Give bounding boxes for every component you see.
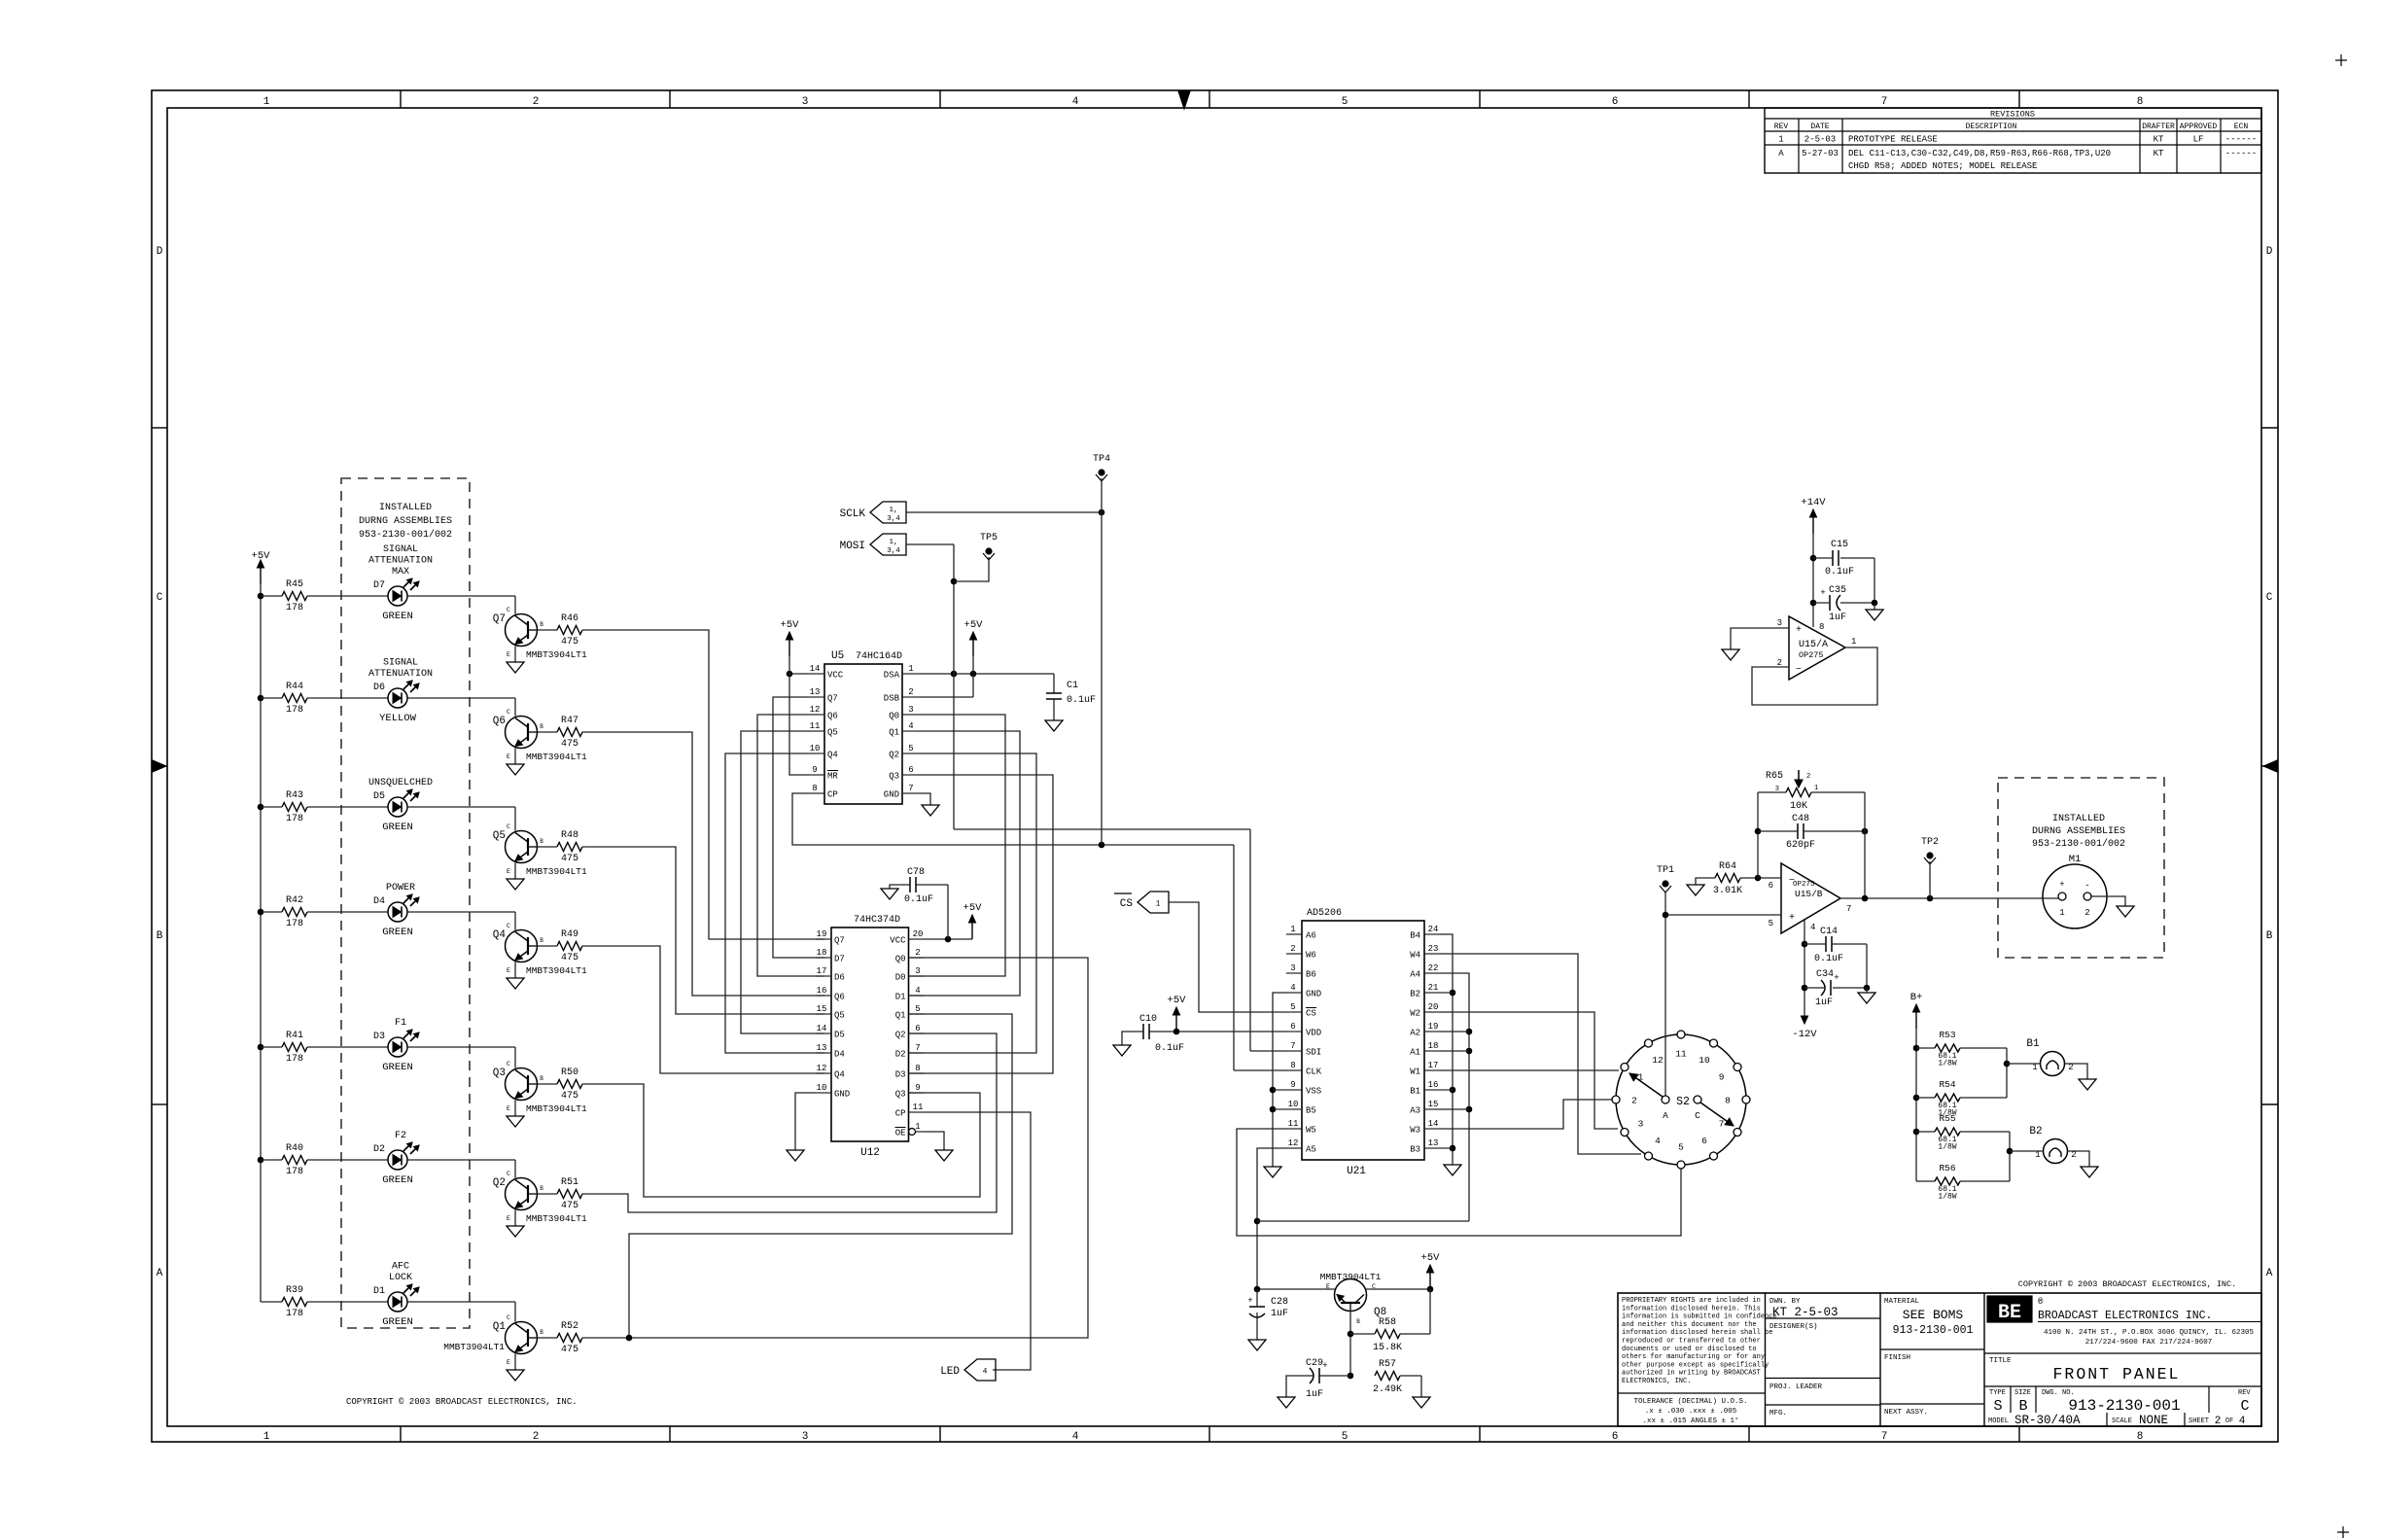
svg-text:Q5: Q5 bbox=[827, 728, 838, 738]
svg-text:KT: KT bbox=[2154, 149, 2164, 158]
svg-text:1,: 1, bbox=[889, 539, 897, 546]
svg-text:7: 7 bbox=[1881, 1431, 1888, 1443]
svg-text:information disclosed herein s: information disclosed herein shall be bbox=[1622, 1329, 1772, 1337]
svg-text:VDD: VDD bbox=[1306, 1029, 1321, 1038]
svg-text:B: B bbox=[157, 930, 163, 942]
svg-text:1: 1 bbox=[908, 664, 913, 674]
svg-text:-: - bbox=[2084, 881, 2089, 891]
svg-text:Q4: Q4 bbox=[827, 751, 838, 760]
svg-text:D7: D7 bbox=[834, 955, 845, 964]
svg-text:MMBT3904LT1: MMBT3904LT1 bbox=[526, 752, 587, 762]
svg-text:B: B bbox=[540, 1329, 543, 1336]
svg-text:U15/B: U15/B bbox=[1795, 889, 1823, 899]
svg-text:Q5: Q5 bbox=[493, 830, 506, 842]
svg-text:E: E bbox=[507, 1359, 510, 1366]
svg-text:SR-30/40A: SR-30/40A bbox=[2014, 1414, 2081, 1427]
svg-text:B: B bbox=[540, 621, 543, 628]
svg-text:OE: OE bbox=[895, 1129, 906, 1138]
svg-text:R65: R65 bbox=[1766, 771, 1783, 782]
svg-text:R44: R44 bbox=[286, 682, 303, 692]
svg-text:C15: C15 bbox=[1831, 540, 1848, 550]
svg-text:+: + bbox=[2059, 880, 2064, 890]
svg-text:R41: R41 bbox=[286, 1031, 303, 1041]
svg-text:20: 20 bbox=[913, 929, 924, 939]
svg-text:CS: CS bbox=[1120, 898, 1134, 910]
svg-text:+14V: +14V bbox=[1801, 497, 1826, 508]
svg-text:LED: LED bbox=[940, 1366, 960, 1378]
svg-text:8: 8 bbox=[2137, 96, 2144, 108]
svg-text:BE: BE bbox=[1998, 1302, 2021, 1324]
svg-text:A6: A6 bbox=[1306, 931, 1316, 941]
svg-text:MMBT3904LT1: MMBT3904LT1 bbox=[526, 1213, 587, 1224]
svg-text:+: + bbox=[1820, 588, 1825, 598]
svg-text:U12: U12 bbox=[860, 1147, 880, 1159]
svg-text:R48: R48 bbox=[561, 830, 578, 841]
svg-text:GREEN: GREEN bbox=[382, 822, 413, 833]
svg-text:Q3: Q3 bbox=[493, 1067, 506, 1079]
svg-text:15.8K: 15.8K bbox=[1373, 1343, 1402, 1353]
svg-text:C: C bbox=[507, 607, 510, 613]
svg-text:5: 5 bbox=[1678, 1142, 1684, 1153]
svg-text:+5V: +5V bbox=[1421, 1252, 1441, 1264]
svg-text:INSTALLED: INSTALLED bbox=[2052, 814, 2105, 824]
svg-text:W4: W4 bbox=[1410, 951, 1420, 961]
svg-text:MFG.: MFG. bbox=[1769, 1410, 1787, 1417]
svg-text:6: 6 bbox=[1612, 96, 1619, 108]
svg-text:3: 3 bbox=[1290, 963, 1295, 973]
svg-text:CS: CS bbox=[1306, 1009, 1316, 1019]
svg-text:R52: R52 bbox=[561, 1321, 578, 1332]
svg-text:953-2130-001/002: 953-2130-001/002 bbox=[2032, 838, 2125, 850]
svg-text:D3: D3 bbox=[895, 1070, 906, 1080]
svg-text:Q2: Q2 bbox=[493, 1177, 506, 1189]
svg-text:COPYRIGHT © 2003 BROADCAST ELE: COPYRIGHT © 2003 BROADCAST ELECTRONICS, … bbox=[346, 1397, 578, 1407]
svg-text:F2: F2 bbox=[395, 1131, 406, 1141]
svg-text:NONE: NONE bbox=[2139, 1414, 2168, 1427]
svg-text:C34: C34 bbox=[1816, 969, 1834, 980]
svg-text:17: 17 bbox=[817, 966, 827, 976]
svg-text:REVISIONS: REVISIONS bbox=[1990, 110, 2035, 120]
svg-text:DEL C11-C13,C30-C32,C49,D8,R59: DEL C11-C13,C30-C32,C49,D8,R59-R63,R66-R… bbox=[1848, 149, 2111, 158]
svg-text:YELLOW: YELLOW bbox=[379, 713, 417, 724]
svg-text:19: 19 bbox=[817, 929, 827, 939]
svg-text:620pF: 620pF bbox=[1786, 840, 1815, 851]
svg-text:AD5206: AD5206 bbox=[1307, 908, 1342, 919]
svg-text:A3: A3 bbox=[1410, 1106, 1420, 1116]
svg-text:475: 475 bbox=[561, 854, 578, 864]
svg-text:R51: R51 bbox=[561, 1177, 578, 1188]
svg-text:Q1: Q1 bbox=[895, 1011, 906, 1021]
svg-text:12: 12 bbox=[1652, 1055, 1664, 1066]
svg-text:E: E bbox=[507, 967, 510, 974]
svg-text:Q2: Q2 bbox=[895, 1031, 906, 1040]
svg-text:4: 4 bbox=[1290, 983, 1295, 993]
svg-text:0.1uF: 0.1uF bbox=[1814, 954, 1843, 964]
svg-text:B5: B5 bbox=[1306, 1106, 1316, 1116]
svg-text:13: 13 bbox=[817, 1043, 827, 1053]
svg-text:7: 7 bbox=[908, 784, 913, 793]
svg-text:ATTENUATION: ATTENUATION bbox=[368, 556, 433, 567]
svg-text:913-2130-001: 913-2130-001 bbox=[1893, 1324, 1974, 1337]
svg-text:R53: R53 bbox=[1939, 1030, 1955, 1040]
svg-text:1: 1 bbox=[1156, 900, 1161, 909]
svg-text:9: 9 bbox=[812, 765, 817, 775]
svg-text:Q3: Q3 bbox=[889, 772, 899, 782]
svg-text:E: E bbox=[507, 753, 510, 760]
svg-text:8: 8 bbox=[812, 784, 817, 793]
svg-text:CHGD R58; ADDED NOTES; MODEL R: CHGD R58; ADDED NOTES; MODEL RELEASE bbox=[1848, 161, 2037, 171]
svg-text:17: 17 bbox=[1428, 1061, 1439, 1070]
svg-text:475: 475 bbox=[561, 637, 578, 647]
svg-text:GREEN: GREEN bbox=[382, 1174, 413, 1186]
svg-text:4: 4 bbox=[908, 721, 913, 731]
svg-text:+: + bbox=[1834, 973, 1839, 983]
svg-text:MMBT3904LT1: MMBT3904LT1 bbox=[526, 866, 587, 877]
svg-text:6: 6 bbox=[1701, 1136, 1707, 1146]
svg-text:Q7: Q7 bbox=[834, 936, 845, 946]
svg-text:1,: 1, bbox=[889, 507, 897, 514]
svg-text:SIGNAL: SIGNAL bbox=[383, 658, 418, 669]
svg-text:VSS: VSS bbox=[1306, 1087, 1321, 1097]
svg-text:C28: C28 bbox=[1271, 1297, 1288, 1308]
svg-text:BROADCAST ELECTRONICS INC.: BROADCAST ELECTRONICS INC. bbox=[2038, 1310, 2212, 1322]
svg-text:1uF: 1uF bbox=[1306, 1389, 1323, 1400]
svg-text:U21: U21 bbox=[1347, 1166, 1366, 1177]
svg-text:C: C bbox=[507, 709, 510, 716]
svg-text:+5V: +5V bbox=[963, 902, 983, 914]
svg-text:B: B bbox=[540, 723, 543, 730]
svg-text:GREEN: GREEN bbox=[382, 1316, 413, 1328]
svg-text:D1: D1 bbox=[895, 993, 906, 1002]
svg-text:7: 7 bbox=[915, 1043, 920, 1053]
svg-text:GREEN: GREEN bbox=[382, 927, 413, 938]
svg-text:C: C bbox=[2240, 1398, 2249, 1415]
svg-text:12: 12 bbox=[810, 705, 821, 715]
svg-text:18: 18 bbox=[1428, 1041, 1439, 1051]
svg-text:C: C bbox=[507, 1314, 510, 1321]
svg-text:3: 3 bbox=[1638, 1119, 1644, 1130]
svg-text:KT: KT bbox=[2154, 135, 2164, 145]
svg-text:DURNG ASSEMBLIES: DURNG ASSEMBLIES bbox=[2032, 826, 2125, 837]
svg-text:CLK: CLK bbox=[1306, 1067, 1322, 1077]
svg-text:2: 2 bbox=[533, 96, 540, 108]
svg-text:W5: W5 bbox=[1306, 1126, 1316, 1136]
svg-text:23: 23 bbox=[1428, 944, 1439, 954]
svg-text:MMBT3904LT1: MMBT3904LT1 bbox=[526, 649, 587, 660]
svg-text:4100 N. 24TH ST., P.O.BOX 3606: 4100 N. 24TH ST., P.O.BOX 3606 QUINCY, I… bbox=[2044, 1329, 2255, 1337]
svg-text:A1: A1 bbox=[1410, 1048, 1420, 1058]
svg-text:KT 2-5-03: KT 2-5-03 bbox=[1772, 1306, 1839, 1319]
svg-text:S: S bbox=[1993, 1398, 2002, 1415]
svg-text:DWG. NO.: DWG. NO. bbox=[2042, 1389, 2075, 1397]
svg-text:5: 5 bbox=[1342, 1431, 1349, 1443]
svg-text:20: 20 bbox=[1428, 1002, 1439, 1012]
svg-text:MMBT3904LT1: MMBT3904LT1 bbox=[526, 965, 587, 976]
svg-text:10: 10 bbox=[1288, 1100, 1299, 1109]
svg-text:3,4: 3,4 bbox=[887, 515, 900, 523]
svg-text:B: B bbox=[540, 937, 543, 944]
svg-text:OP275: OP275 bbox=[1793, 881, 1815, 889]
svg-text:1: 1 bbox=[915, 1122, 920, 1132]
svg-text:LF: LF bbox=[2193, 135, 2204, 145]
svg-text:GND: GND bbox=[884, 790, 899, 800]
svg-text:217/224-9600 FAX 217/224-9607: 217/224-9600 FAX 217/224-9607 bbox=[2085, 1339, 2213, 1347]
svg-text:F1: F1 bbox=[395, 1018, 406, 1029]
svg-text:DATE: DATE bbox=[1810, 122, 1829, 131]
svg-text:R40: R40 bbox=[286, 1143, 303, 1154]
svg-text:+5V: +5V bbox=[964, 619, 984, 631]
svg-text:R50: R50 bbox=[561, 1067, 578, 1078]
svg-text:Q5: Q5 bbox=[834, 1011, 845, 1021]
svg-text:2: 2 bbox=[915, 948, 920, 958]
svg-text:8: 8 bbox=[1819, 622, 1824, 632]
svg-text:TYPE: TYPE bbox=[1989, 1389, 2006, 1397]
svg-text:5: 5 bbox=[1769, 919, 1773, 928]
svg-text:+5V: +5V bbox=[1168, 995, 1187, 1006]
svg-text:11: 11 bbox=[1288, 1119, 1299, 1129]
svg-text:INSTALLED: INSTALLED bbox=[379, 503, 432, 513]
svg-text:C10: C10 bbox=[1139, 1014, 1157, 1025]
svg-text:2: 2 bbox=[1806, 773, 1810, 781]
svg-text:11: 11 bbox=[913, 1102, 924, 1112]
svg-text:R46: R46 bbox=[561, 613, 578, 624]
svg-text:B3: B3 bbox=[1410, 1145, 1420, 1155]
svg-text:74HC164D: 74HC164D bbox=[856, 651, 902, 662]
svg-text:10: 10 bbox=[1699, 1055, 1710, 1066]
svg-text:953-2130-001/002: 953-2130-001/002 bbox=[359, 529, 452, 541]
svg-text:5: 5 bbox=[1290, 1002, 1295, 1012]
svg-text:4: 4 bbox=[1810, 923, 1815, 932]
svg-text:6: 6 bbox=[1769, 881, 1773, 891]
svg-text:2: 2 bbox=[1290, 944, 1295, 954]
svg-text:SCLK: SCLK bbox=[840, 508, 866, 520]
svg-text:REV: REV bbox=[2238, 1389, 2251, 1397]
svg-text:W3: W3 bbox=[1410, 1126, 1420, 1136]
svg-text:C35: C35 bbox=[1829, 585, 1846, 596]
svg-text:2: 2 bbox=[2084, 908, 2089, 918]
svg-text:1uF: 1uF bbox=[1829, 612, 1846, 623]
svg-text:-12V: -12V bbox=[1792, 1029, 1817, 1040]
svg-text:B4: B4 bbox=[1410, 931, 1420, 941]
svg-text:1: 1 bbox=[1290, 925, 1295, 934]
svg-text:178: 178 bbox=[286, 814, 303, 824]
svg-text:15: 15 bbox=[1428, 1100, 1439, 1109]
svg-text:A5: A5 bbox=[1306, 1145, 1316, 1155]
svg-text:D7: D7 bbox=[373, 580, 385, 591]
svg-text:information disclosed herein.: information disclosed herein. This bbox=[1622, 1305, 1761, 1312]
svg-text:GND: GND bbox=[1306, 990, 1321, 999]
svg-text:3: 3 bbox=[1775, 786, 1779, 793]
svg-text:8: 8 bbox=[915, 1064, 920, 1073]
svg-text:2.49K: 2.49K bbox=[1373, 1384, 1402, 1395]
svg-text:Q3: Q3 bbox=[895, 1090, 906, 1100]
svg-text:DRAFTER: DRAFTER bbox=[2142, 122, 2175, 131]
svg-text:6: 6 bbox=[1612, 1431, 1619, 1443]
svg-text:12: 12 bbox=[817, 1064, 827, 1073]
svg-text:MAX: MAX bbox=[392, 567, 409, 577]
svg-text:A: A bbox=[2266, 1268, 2273, 1279]
svg-text:ELECTRONICS, INC.: ELECTRONICS, INC. bbox=[1622, 1378, 1691, 1385]
svg-text:B: B bbox=[540, 1185, 543, 1192]
svg-text:3.01K: 3.01K bbox=[1713, 886, 1742, 896]
svg-text:.xx ± .015 ANGLES ± 1°: .xx ± .015 ANGLES ± 1° bbox=[1642, 1417, 1738, 1425]
svg-text:VCC: VCC bbox=[827, 671, 844, 681]
svg-text:Q2: Q2 bbox=[889, 751, 899, 760]
svg-text:D1: D1 bbox=[373, 1286, 385, 1297]
svg-text:B: B bbox=[540, 838, 543, 845]
svg-text:7: 7 bbox=[1846, 904, 1851, 914]
svg-text:2: 2 bbox=[533, 1431, 540, 1443]
svg-text:4: 4 bbox=[915, 986, 920, 996]
svg-text:W2: W2 bbox=[1410, 1009, 1420, 1019]
svg-text:14: 14 bbox=[810, 664, 821, 674]
svg-text:475: 475 bbox=[561, 739, 578, 750]
svg-text:10: 10 bbox=[810, 744, 821, 753]
svg-text:11: 11 bbox=[810, 721, 821, 731]
svg-text:C: C bbox=[507, 823, 510, 830]
svg-text:A: A bbox=[1663, 1110, 1668, 1121]
svg-text:+5V: +5V bbox=[252, 550, 271, 562]
svg-text:OF: OF bbox=[2225, 1417, 2233, 1425]
svg-text:B: B bbox=[2018, 1398, 2027, 1415]
svg-text:0.1uF: 0.1uF bbox=[1155, 1043, 1184, 1054]
svg-text:TITLE: TITLE bbox=[1989, 1357, 2012, 1365]
svg-text:PROPRIETARY RIGHTS are include: PROPRIETARY RIGHTS are included in bbox=[1622, 1297, 1761, 1305]
svg-text:B6: B6 bbox=[1306, 970, 1316, 980]
svg-text:C78: C78 bbox=[907, 867, 925, 878]
svg-text:R54: R54 bbox=[1939, 1079, 1955, 1090]
svg-text:C: C bbox=[507, 1171, 510, 1177]
svg-text:DWN. BY: DWN. BY bbox=[1769, 1298, 1801, 1306]
svg-text:U5: U5 bbox=[831, 650, 844, 662]
svg-text:ECN: ECN bbox=[2234, 122, 2249, 131]
svg-text:FRONT PANEL: FRONT PANEL bbox=[2053, 1365, 2181, 1383]
svg-text:2: 2 bbox=[908, 687, 913, 697]
svg-text:Q1: Q1 bbox=[493, 1321, 507, 1333]
svg-text:APPROVED: APPROVED bbox=[2180, 122, 2218, 131]
svg-text:MODEL: MODEL bbox=[1988, 1417, 2009, 1425]
svg-text:R49: R49 bbox=[561, 929, 578, 940]
svg-text:C14: C14 bbox=[1820, 927, 1838, 937]
svg-text:178: 178 bbox=[286, 1167, 303, 1177]
svg-text:6: 6 bbox=[1290, 1022, 1295, 1032]
svg-text:−: − bbox=[1796, 665, 1802, 676]
svg-text:MR: MR bbox=[827, 772, 838, 782]
svg-text:+: + bbox=[1796, 625, 1802, 636]
svg-text:D0: D0 bbox=[895, 973, 906, 983]
svg-text:12: 12 bbox=[1288, 1138, 1299, 1148]
svg-text:21: 21 bbox=[1428, 983, 1439, 993]
svg-text:E: E bbox=[507, 1105, 510, 1112]
svg-text:B1: B1 bbox=[2026, 1038, 2040, 1050]
svg-text:AFC: AFC bbox=[392, 1262, 409, 1273]
svg-text:S2: S2 bbox=[1676, 1096, 1690, 1108]
svg-text:5-27-03: 5-27-03 bbox=[1802, 149, 1839, 158]
svg-text:8: 8 bbox=[2137, 1431, 2144, 1443]
svg-text:9: 9 bbox=[1719, 1072, 1725, 1083]
svg-text:0.1uF: 0.1uF bbox=[1067, 695, 1096, 706]
svg-text:13: 13 bbox=[810, 687, 821, 697]
svg-text:178: 178 bbox=[286, 603, 303, 613]
svg-text:1uF: 1uF bbox=[1271, 1309, 1288, 1319]
svg-text:C: C bbox=[507, 1061, 510, 1067]
svg-text:19: 19 bbox=[1428, 1022, 1439, 1032]
svg-text:9: 9 bbox=[1290, 1080, 1295, 1090]
svg-text:D6: D6 bbox=[373, 682, 385, 693]
svg-text:B: B bbox=[540, 1075, 543, 1082]
svg-text:475: 475 bbox=[561, 953, 578, 963]
svg-text:TP4: TP4 bbox=[1093, 454, 1110, 465]
svg-text:A2: A2 bbox=[1410, 1029, 1420, 1038]
svg-text:16: 16 bbox=[1428, 1080, 1439, 1090]
svg-text:R42: R42 bbox=[286, 895, 303, 906]
svg-text:Q6: Q6 bbox=[834, 993, 845, 1002]
svg-text:------: ------ bbox=[2225, 149, 2257, 158]
svg-text:PROTOTYPE RELEASE: PROTOTYPE RELEASE bbox=[1848, 135, 1938, 145]
svg-text:D3: D3 bbox=[373, 1032, 385, 1042]
svg-text:D4: D4 bbox=[373, 896, 385, 907]
svg-text:R45: R45 bbox=[286, 579, 303, 590]
svg-text:E: E bbox=[507, 651, 510, 658]
svg-text:A4: A4 bbox=[1410, 970, 1420, 980]
svg-text:SCALE: SCALE bbox=[2112, 1417, 2132, 1425]
svg-text:C: C bbox=[507, 923, 510, 929]
svg-text:Q6: Q6 bbox=[493, 716, 506, 727]
svg-text:DURNG ASSEMBLIES: DURNG ASSEMBLIES bbox=[359, 516, 452, 527]
svg-text:D: D bbox=[157, 246, 163, 258]
svg-text:R55: R55 bbox=[1939, 1113, 1955, 1124]
svg-text:C: C bbox=[2266, 592, 2273, 604]
svg-text:24: 24 bbox=[1428, 925, 1439, 934]
svg-text:CP: CP bbox=[895, 1109, 906, 1119]
svg-text:178: 178 bbox=[286, 1054, 303, 1065]
svg-text:C: C bbox=[157, 592, 163, 604]
svg-text:3: 3 bbox=[908, 705, 913, 715]
svg-text:11: 11 bbox=[1675, 1049, 1687, 1060]
svg-text:D2: D2 bbox=[895, 1050, 906, 1060]
svg-text:3: 3 bbox=[802, 1431, 809, 1443]
svg-text:E: E bbox=[507, 868, 510, 875]
svg-text:W6: W6 bbox=[1306, 951, 1316, 961]
svg-text:22: 22 bbox=[1428, 963, 1439, 973]
svg-text:Q0: Q0 bbox=[895, 955, 906, 964]
svg-text:D5: D5 bbox=[373, 791, 385, 802]
svg-text:8: 8 bbox=[1725, 1096, 1731, 1106]
svg-text:DESIGNER(S): DESIGNER(S) bbox=[1769, 1323, 1818, 1331]
svg-text:D5: D5 bbox=[834, 1031, 845, 1040]
svg-text:2-5-03: 2-5-03 bbox=[1804, 135, 1836, 145]
svg-text:ATTENUATION: ATTENUATION bbox=[368, 669, 433, 680]
svg-text:+: + bbox=[1322, 1361, 1327, 1371]
svg-text:reproduced or transferred to o: reproduced or transferred to other bbox=[1622, 1338, 1761, 1346]
svg-text:VCC: VCC bbox=[890, 936, 906, 946]
svg-text:COPYRIGHT © 2003 BROADCAST ELE: COPYRIGHT © 2003 BROADCAST ELECTRONICS, … bbox=[2018, 1279, 2236, 1289]
svg-text:MMBT3904LT1: MMBT3904LT1 bbox=[1320, 1272, 1382, 1282]
svg-text:E: E bbox=[507, 1215, 510, 1222]
svg-text:15: 15 bbox=[817, 1004, 827, 1014]
svg-text:REV: REV bbox=[1774, 122, 1789, 131]
svg-text:3: 3 bbox=[1777, 618, 1782, 628]
svg-text:R57: R57 bbox=[1379, 1359, 1396, 1370]
svg-text:OP275: OP275 bbox=[1799, 650, 1824, 660]
svg-text:SEE BOMS: SEE BOMS bbox=[1903, 1308, 1964, 1322]
svg-text:CP: CP bbox=[827, 790, 838, 800]
svg-text:5: 5 bbox=[915, 1004, 920, 1014]
svg-text:information is submitted in co: information is submitted in confidence bbox=[1622, 1313, 1777, 1321]
svg-text:Q7: Q7 bbox=[827, 694, 838, 704]
svg-text:13: 13 bbox=[1428, 1138, 1439, 1148]
svg-text:4: 4 bbox=[983, 1368, 988, 1377]
